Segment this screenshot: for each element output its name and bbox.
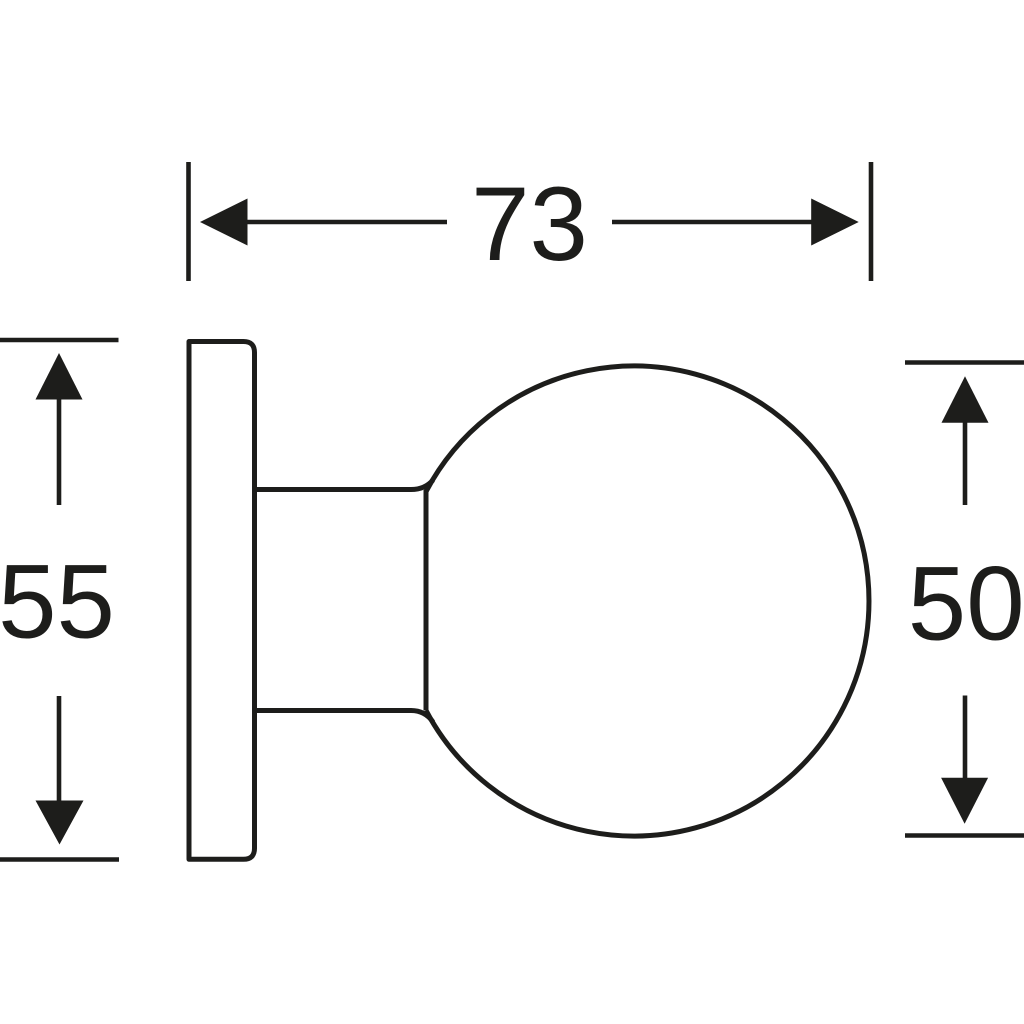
ball (sphere outline arc) <box>426 366 869 836</box>
extension line left (plate back) <box>186 162 191 281</box>
ball/neck junction chord <box>424 490 429 711</box>
dimension shaft upper <box>963 421 968 505</box>
dimension shaft left <box>245 220 447 225</box>
arrowhead left <box>200 199 248 246</box>
rose plate (side view) <box>189 342 255 860</box>
dimension shaft lower <box>57 696 62 802</box>
arrowhead up (left dim) <box>36 353 83 400</box>
extension line bottom (ball bottom) <box>905 833 1024 838</box>
neck bottom line with fillet into ball <box>255 711 434 723</box>
extension line bottom (plate bottom) <box>0 857 119 862</box>
extension line right (ball front) <box>869 162 874 281</box>
extension line top (ball top) <box>905 360 1024 365</box>
svg-text:55: 55 <box>0 544 115 661</box>
arrowhead down (right dim) <box>941 778 988 824</box>
dimension shaft lower <box>963 696 968 780</box>
dimension shaft upper <box>57 398 62 505</box>
neck top line with fillet into ball <box>255 480 434 490</box>
svg-text:50: 50 <box>908 546 1024 663</box>
arrowhead down (left dim) <box>36 801 84 845</box>
svg-text:73: 73 <box>471 166 588 283</box>
arrowhead right <box>811 199 859 246</box>
arrowhead up (right dim) <box>942 376 989 423</box>
dimension shaft right <box>612 220 814 225</box>
extension line top (plate top) <box>0 338 119 343</box>
